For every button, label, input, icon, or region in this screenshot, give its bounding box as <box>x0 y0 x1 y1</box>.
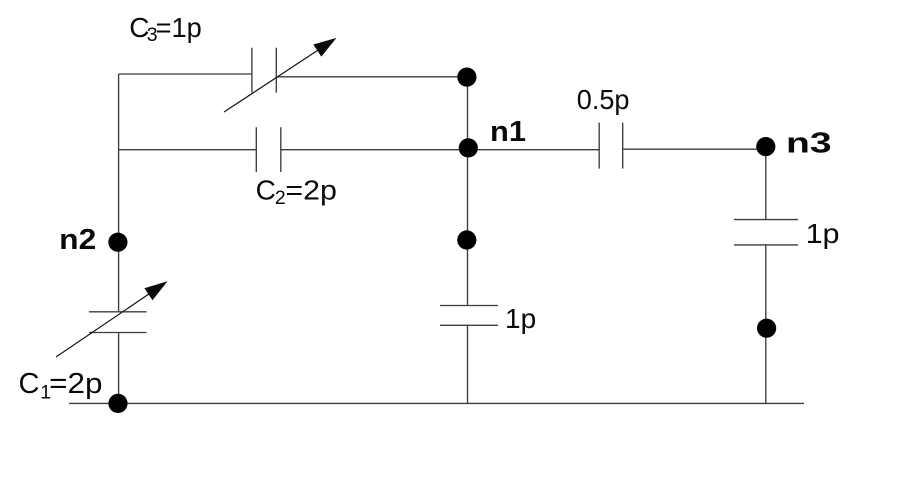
svg-text:1p: 1p <box>505 303 536 334</box>
svg-text:=2p: =2p <box>285 175 337 206</box>
capacitor 1p (n3 branch) top plate <box>734 219 798 221</box>
node n2 dot <box>108 233 127 252</box>
svg-text:2: 2 <box>275 187 286 209</box>
svg-text:0.5p: 0.5p <box>577 84 630 115</box>
node n3 dot <box>756 137 775 156</box>
capacitor 1p (n3 branch) bottom plate <box>734 244 798 246</box>
capacitor 0.5p left plate <box>598 123 600 169</box>
wire bottom horizontal rail <box>69 402 804 404</box>
svg-text:n3: n3 <box>786 127 832 159</box>
svg-text:=2p: =2p <box>49 368 102 400</box>
wire n3 vertical lower (1p bottom plate to bottom rail) <box>765 245 767 404</box>
node dot below n3 <box>757 319 776 338</box>
wire left vertical upper (top wire to C1 top plate) <box>118 74 120 312</box>
capacitor C2 left plate <box>255 127 257 172</box>
node n1 dot <box>459 138 478 157</box>
label C2=2p <box>256 175 337 210</box>
node dot bottom-left <box>108 394 127 413</box>
svg-text:1p: 1p <box>806 218 840 249</box>
capacitor C3 left plate <box>251 48 253 93</box>
capacitor 1p (n1 branch) top plate <box>440 305 498 307</box>
svg-text:n1: n1 <box>490 116 526 148</box>
svg-text:n2: n2 <box>59 224 96 256</box>
node dot below n1 <box>457 230 476 249</box>
capacitor 1p (n1 branch) bottom plate <box>440 324 498 326</box>
wire left vertical lower (C1 bottom plate to bottom rail) <box>118 333 120 404</box>
capacitor C1 top plate <box>89 311 147 313</box>
variable capacitor C3 arrow <box>224 38 337 112</box>
svg-text:C: C <box>256 175 276 206</box>
wire middle horizontal (C2 right plate to 0.5p left plate) <box>281 149 599 151</box>
capacitor C3 right plate <box>275 48 277 93</box>
variable capacitor C1 arrow <box>56 281 168 357</box>
label C1=2p <box>19 368 103 403</box>
wire n3 vertical upper (node n3 to 1p top plate) <box>765 147 767 220</box>
capacitor C1 bottom plate <box>89 332 147 334</box>
capacitor C2 right plate <box>280 127 282 172</box>
svg-text:C: C <box>19 368 40 400</box>
svg-text:=1p: =1p <box>156 12 202 43</box>
wire middle-left horizontal (n2 column to C2 left plate) <box>119 149 257 151</box>
wire middle-right horizontal (0.5p right plate to node n3) <box>623 148 766 150</box>
wire top-left horizontal (n2 column to C3 left plate) <box>119 73 252 75</box>
wire n1 vertical lower (1p bottom plate to bottom rail) <box>467 325 469 403</box>
node top junction dot <box>457 68 476 87</box>
wire n1 vertical upper (top junction to 1p top plate) <box>467 77 469 306</box>
capacitor 0.5p right plate <box>622 123 624 169</box>
wire top-right horizontal (C3 right plate to top junction) <box>276 76 467 78</box>
label C3=1p <box>129 12 201 46</box>
